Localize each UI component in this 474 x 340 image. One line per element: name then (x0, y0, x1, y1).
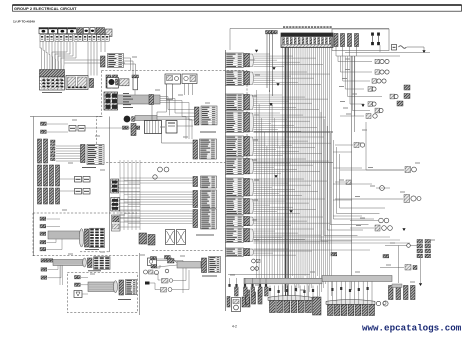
motor M2 (177, 230, 186, 245)
wires to relay box B2 (87, 42, 89, 76)
aux dark blob (145, 282, 150, 285)
right comp y228 (375, 225, 380, 231)
right comp pair (375, 108, 380, 113)
bottom strip 1 bar (268, 296, 312, 301)
right arrow (361, 104, 364, 107)
label group y198 (226, 198, 244, 214)
starter motor (107, 78, 119, 89)
bottom dark block (313, 297, 322, 315)
section boundary vertical right (109, 117, 111, 253)
comp pair y252 (331, 253, 334, 256)
bottom-right harness band (322, 276, 392, 282)
relay pin row (40, 35, 44, 42)
canopy table T6 (126, 280, 137, 295)
right nested horizontals (333, 151, 352, 153)
mid bottom pin connectors (235, 287, 239, 296)
right comp pair (368, 87, 373, 92)
label group y71 (226, 71, 244, 85)
gauge dark comp (124, 116, 131, 123)
dark comp right (131, 124, 136, 136)
mid connector bars (193, 177, 198, 187)
junction arrows (255, 50, 258, 53)
relay K7 (90, 28, 95, 34)
svg-text:GROUP 2 ELECTRICAL CIRCUIT: GROUP 2 ELECTRICAL CIRCUIT (14, 6, 77, 11)
bottom strip 2 bar (326, 300, 375, 305)
aux comp circle (144, 270, 148, 274)
title bar GROUP 2 ELECTRICAL CIRCUIT (13, 5, 462, 11)
fuse chain (392, 45, 397, 51)
bottom left small conns (246, 290, 250, 304)
bottom right circle (383, 301, 388, 306)
junction block right (112, 215, 121, 231)
right comp pair (390, 94, 395, 99)
engine harness bundle (118, 95, 161, 104)
junction blocks right of boundary (111, 179, 119, 193)
long right wires y237-250 (254, 236, 391, 238)
aux right verticals (174, 261, 183, 294)
connector block CN-E2 (104, 92, 118, 110)
harness end connector (85, 229, 89, 247)
diode D1 (380, 186, 385, 191)
comp y256 (383, 255, 386, 258)
mid table C (201, 209, 217, 229)
sw comp 4 (40, 241, 43, 244)
svg-text:1) UP TO #0249: 1) UP TO #0249 (13, 20, 35, 24)
aux connector bars (334, 34, 338, 47)
right comp y220 (379, 218, 384, 223)
mid table D (209, 257, 221, 273)
small boxes mid (75, 177, 82, 183)
battery (145, 121, 162, 134)
alternator comp (182, 74, 197, 84)
ECU long connector (281, 33, 333, 48)
svg-text:4-2: 4-2 (232, 324, 237, 328)
label group y228 (226, 228, 244, 242)
canopy label (118, 299, 131, 301)
ECU top labels (283, 26, 285, 28)
wire fusebox to table (65, 59, 101, 61)
relay row (39, 28, 48, 34)
relay K6 (84, 28, 90, 34)
connector block CL2 (38, 165, 42, 186)
separator vertical line (225, 50, 227, 311)
oil filter cylinder (132, 75, 139, 78)
wires down right of relays (100, 42, 102, 52)
section B right border (139, 253, 141, 315)
relay K5 dark (78, 28, 83, 34)
canopy comp V box (74, 291, 82, 298)
top wire (230, 28, 389, 30)
wire to stack (407, 244, 411, 248)
lower mid connectors (151, 257, 154, 260)
band2 wires (157, 117, 186, 140)
table T1 (101, 56, 106, 67)
rail grid table (94, 257, 111, 270)
canopy connector (119, 280, 124, 295)
relay dropper conn (266, 31, 269, 34)
label group y94 (226, 94, 244, 110)
right comp circle pair (380, 70, 384, 74)
4-stack connectors right (417, 240, 423, 244)
engine compartment dashed box (97, 71, 248, 163)
sw comp 2 (40, 225, 43, 228)
engine harness label (200, 131, 216, 133)
sw comp 3 (40, 232, 43, 235)
section boundary line (30, 116, 103, 118)
engine box wires (157, 100, 167, 116)
right comp circle pair (377, 79, 381, 83)
canopy dashed box (67, 273, 137, 313)
motor M1 (166, 230, 175, 245)
row y267 (380, 267, 404, 269)
wire fan right part (52, 42, 67, 69)
right comp y199 (335, 198, 403, 200)
tiny wire labels scatter (345, 58, 350, 60)
dashed boundary mid (152, 250, 223, 252)
aux comp bottom (161, 288, 167, 293)
aux nested wires (152, 265, 160, 268)
relay K8 dark (96, 28, 105, 35)
dashed boundary 3 (33, 255, 139, 257)
secondary verticals (256, 90, 258, 283)
label group y112 (226, 112, 244, 133)
bottom right 4-column cluster (389, 286, 394, 300)
mid bottom drop wires (229, 278, 231, 287)
fusible link box (332, 29, 389, 51)
lamp connector row 1 (41, 259, 44, 262)
CN-E2 label rows (123, 93, 129, 95)
canopy band cap (114, 281, 118, 293)
dashed boundary 2 (33, 212, 137, 214)
label group y158 (226, 158, 244, 174)
connector block CL3 (38, 188, 42, 204)
right comp y170 (340, 169, 404, 171)
aux bar drop wires (335, 47, 337, 57)
main harness vertical wires (282, 45, 284, 296)
main harness table T3 (193, 140, 198, 159)
band1 stepped wires to CN-E3 (160, 97, 195, 110)
fusible links (371, 33, 374, 36)
mbox side conns (227, 297, 230, 308)
band end cap (79, 229, 83, 247)
battery 2 (166, 121, 177, 134)
small relay L1 (41, 122, 44, 125)
glow plug comp (165, 74, 181, 84)
sw comp 1 (40, 217, 43, 220)
mid table B (201, 190, 217, 208)
bottom strip 1 cells (270, 301, 276, 313)
junction block wires (119, 180, 140, 182)
connector block CL3b (50, 188, 54, 204)
bottom strip circle (376, 301, 380, 305)
rail harness band (53, 260, 83, 266)
canopy comp row2 (75, 283, 78, 286)
label group y53 (226, 53, 244, 67)
drop wires to canopy (59, 266, 61, 286)
right extra comps (404, 85, 410, 90)
starter solenoid (120, 79, 130, 86)
engine label table T2 (201, 106, 217, 125)
small circ lowmid (155, 271, 159, 275)
left table T4 (81, 145, 86, 163)
big grid table T5 (90, 228, 105, 247)
connector block CL2b (50, 165, 54, 186)
connector stack CN-E1 (106, 75, 111, 88)
label group y178 (226, 178, 244, 196)
big harness band mid (177, 262, 201, 269)
wire long y274 (228, 273, 310, 275)
right mid comps (354, 143, 359, 148)
junction wires (120, 217, 140, 219)
rail band cap (83, 258, 87, 267)
long right verticals (351, 56, 353, 290)
svg-text:www.epcatalogs.com: www.epcatalogs.com (362, 323, 462, 334)
lamp comp pair (69, 126, 76, 132)
right L-stack wires (337, 56, 339, 62)
aux dark comp (168, 259, 175, 264)
section A right border (80, 251, 110, 253)
riser to y170 comp (366, 122, 404, 170)
thick harness band left (48, 231, 80, 239)
small comps right of labels (252, 259, 256, 263)
lamp connector row 3 (41, 276, 44, 279)
left bundle wires (56, 145, 81, 147)
sw comp 5 (40, 248, 43, 251)
arrow down right (419, 283, 422, 286)
right comp y116 (366, 114, 371, 119)
relay K9 (106, 29, 113, 37)
engine band 2 (135, 116, 157, 121)
label group y136 (226, 136, 244, 157)
right comp y182 (346, 180, 351, 185)
canopy comp row1 (75, 276, 78, 279)
canopy harness band (88, 282, 114, 292)
wire fan from relays to fuse box (40, 41, 42, 69)
pump cluster blocks (139, 233, 147, 244)
bottom feed wires strip2 (327, 282, 329, 305)
m-box motor (232, 298, 241, 312)
component B3 (90, 79, 94, 88)
rail end connector (88, 258, 93, 268)
wires table to engine box (124, 58, 131, 71)
right nested wires (321, 112, 352, 241)
small relay L2 (41, 130, 44, 133)
heavy cross line (254, 131, 334, 133)
right comp pair (368, 102, 373, 107)
mid harness label (202, 275, 217, 277)
right comp circle pair (380, 59, 384, 63)
mid circles (158, 167, 163, 172)
connector block CL1 (38, 139, 42, 163)
fuse box F1 (40, 70, 65, 78)
engine connector CN-E3 (195, 107, 200, 125)
label group y216 (226, 216, 244, 226)
bottom trunk band (244, 278, 322, 284)
bottom strip 2 cells (328, 305, 334, 316)
mid table A (201, 176, 217, 188)
main trunk dark lines (285, 45, 287, 296)
right rows wires (338, 61, 372, 63)
fuse box label (42, 92, 62, 94)
bottom feed wires strip1 (269, 286, 271, 301)
sensor pair (123, 126, 126, 129)
aux comp small (162, 279, 169, 284)
aux circuit comp box (148, 258, 157, 266)
pin column 1 (51, 140, 56, 143)
mid bundle wires (120, 177, 193, 179)
label group y248 (226, 248, 244, 256)
relay box B2 (66, 76, 88, 90)
lamp connector row 2 (41, 268, 44, 271)
